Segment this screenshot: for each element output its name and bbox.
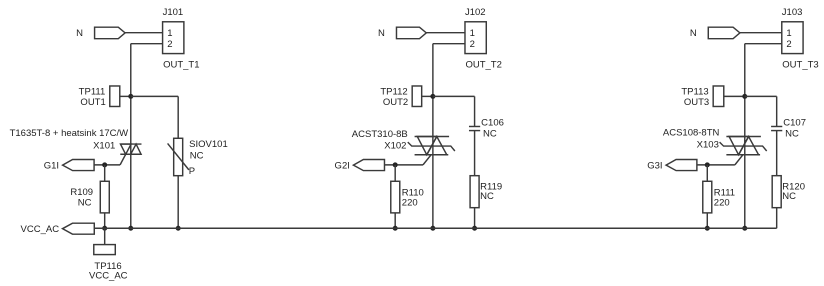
wire test point stub — [120, 95, 131, 97]
svg-text:P: P — [189, 166, 195, 177]
svg-text:OUT2: OUT2 — [383, 97, 408, 108]
svg-text:1: 1 — [786, 28, 791, 39]
wire capacitor to resistor — [776, 131, 778, 176]
wire main vertical net OUT3 — [744, 44, 746, 229]
svg-text:N: N — [76, 28, 83, 39]
svg-text:J102: J102 — [465, 7, 486, 18]
junction node OUT1 — [128, 94, 133, 99]
triac X102 ACST310-8B — [408, 136, 455, 154]
wire pin 2 — [433, 43, 465, 45]
svg-text:T1635T-8 + heatsink 17C/W: T1635T-8 + heatsink 17C/W — [10, 128, 129, 139]
svg-text:220: 220 — [402, 198, 418, 209]
wire gate to resistor — [394, 165, 396, 181]
wire main vertical net OUT1 — [130, 44, 132, 229]
junction bus / snubber — [176, 226, 181, 231]
capacitor C107 — [771, 125, 782, 127]
varistor SIOV101 diagonal — [168, 143, 189, 169]
junction bus / snubber — [472, 226, 477, 231]
svg-text:NC: NC — [190, 151, 204, 162]
svg-text:TP113: TP113 — [681, 87, 708, 98]
wire N to pin 1 — [426, 32, 465, 34]
resistor R109 — [100, 181, 109, 213]
svg-text:VCC_AC: VCC_AC — [21, 224, 60, 235]
svg-text:ACS108-8TN: ACS108-8TN — [663, 128, 720, 139]
svg-text:J101: J101 — [163, 7, 184, 18]
wire gate horizontal — [384, 164, 423, 166]
net flag G1I — [63, 159, 95, 170]
junction bus / gate resistor — [102, 226, 107, 231]
svg-text:NC: NC — [480, 191, 494, 202]
wire N to pin 1 — [740, 32, 782, 34]
wire resistor to bus — [474, 208, 476, 229]
wire pin 2 — [131, 43, 163, 45]
wire gate diagonal — [423, 155, 431, 165]
junction node OUT3 — [742, 94, 747, 99]
svg-text:X101: X101 — [93, 141, 115, 152]
wire gate horizontal — [94, 164, 120, 166]
resistor R120 — [772, 176, 781, 208]
net flag N (channel 2) — [396, 27, 426, 39]
test point TP113 — [713, 86, 724, 107]
net flag VCC_AC — [62, 223, 94, 234]
varistor SIOV101 body — [174, 138, 183, 175]
net flag N (channel 1) — [95, 27, 126, 39]
wire down to capacitor — [474, 96, 476, 126]
capacitor C106 — [469, 125, 480, 127]
junction bus / gate resistor — [705, 226, 710, 231]
wire down to varistor — [177, 96, 179, 138]
svg-text:OUT3: OUT3 — [684, 97, 709, 108]
svg-text:R109: R109 — [70, 187, 93, 198]
svg-text:TP111: TP111 — [79, 87, 106, 98]
junction bus / main wire — [128, 226, 133, 231]
resistor R111 — [703, 181, 712, 213]
wire down to capacitor — [776, 96, 778, 126]
junction bus / main wire — [430, 226, 435, 231]
svg-text:NC: NC — [78, 197, 92, 208]
svg-text:2: 2 — [167, 39, 172, 50]
svg-text:C106: C106 — [481, 118, 504, 129]
wire gate diagonal — [120, 154, 126, 165]
junction node OUT2 — [430, 94, 435, 99]
svg-text:NC: NC — [483, 128, 497, 139]
triac X101 T1635T-8 — [120, 144, 141, 154]
wire VCC_AC bus — [94, 227, 776, 229]
svg-text:OUT1: OUT1 — [80, 97, 105, 108]
wire resistor to bus — [706, 213, 708, 228]
svg-text:G2I: G2I — [335, 161, 350, 172]
connector J101 — [163, 22, 184, 54]
test point TP111 — [110, 86, 120, 107]
net flag G2I — [353, 159, 384, 170]
junction gate node — [705, 162, 710, 167]
svg-text:220: 220 — [714, 198, 730, 209]
svg-text:2: 2 — [470, 39, 475, 50]
wire resistor to bus — [104, 213, 106, 228]
svg-text:OUT_T3: OUT_T3 — [782, 59, 818, 70]
wire main vertical net OUT2 — [432, 44, 434, 229]
connector J103 — [782, 22, 803, 54]
net flag G3I — [666, 159, 697, 170]
svg-text:1: 1 — [470, 28, 475, 39]
svg-text:OUT_T1: OUT_T1 — [163, 59, 199, 70]
wire to test point TP116 — [104, 228, 106, 244]
test point TP116 — [94, 245, 116, 255]
svg-text:VCC_AC: VCC_AC — [89, 270, 128, 281]
svg-text:2: 2 — [786, 39, 791, 50]
svg-text:NC: NC — [785, 128, 799, 139]
wire gate diagonal — [735, 155, 743, 165]
triac X103 ACS108-8TN — [720, 136, 767, 154]
svg-text:N: N — [378, 28, 385, 39]
svg-text:X102: X102 — [384, 140, 406, 151]
connector J102 — [465, 22, 486, 54]
svg-text:1: 1 — [167, 28, 172, 39]
svg-text:X103: X103 — [697, 140, 719, 151]
wire pin 2 — [745, 43, 782, 45]
wire to snubber column — [433, 95, 475, 97]
wire resistor to bus — [394, 213, 396, 228]
wire test point stub — [724, 95, 745, 97]
svg-text:G3I: G3I — [647, 161, 662, 172]
svg-text:C107: C107 — [783, 118, 806, 129]
wire varistor to bus — [177, 176, 179, 229]
net flag N (channel 3) — [708, 27, 740, 39]
svg-text:N: N — [690, 28, 697, 39]
svg-text:J103: J103 — [782, 7, 803, 18]
wire to snubber column — [745, 95, 777, 97]
svg-text:NC: NC — [782, 191, 796, 202]
wire N to pin 1 — [125, 32, 163, 34]
junction bus / gate resistor — [393, 226, 398, 231]
resistor R110 — [391, 181, 400, 213]
junction gate node — [102, 162, 107, 167]
wire to snubber column — [131, 95, 178, 97]
wire test point stub — [422, 95, 433, 97]
svg-text:G1I: G1I — [44, 161, 59, 172]
wire gate to resistor — [706, 165, 708, 181]
resistor R119 — [470, 176, 479, 208]
svg-text:SIOV101: SIOV101 — [189, 139, 228, 150]
wire gate horizontal — [697, 164, 735, 166]
svg-text:TP112: TP112 — [380, 87, 407, 98]
junction gate node — [393, 162, 398, 167]
wire resistor to bus — [776, 208, 778, 229]
svg-text:OUT_T2: OUT_T2 — [465, 59, 501, 70]
svg-text:ACST310-8B: ACST310-8B — [352, 129, 408, 140]
wire gate to resistor — [104, 165, 106, 181]
wire capacitor to resistor — [474, 131, 476, 176]
junction bus / main wire — [742, 226, 747, 231]
test point TP112 — [412, 86, 422, 107]
